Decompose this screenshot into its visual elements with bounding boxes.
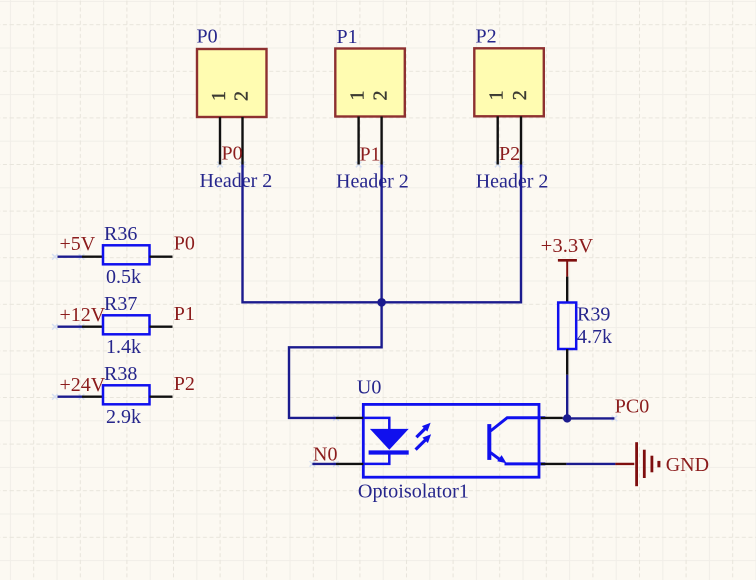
svg-text:2: 2: [230, 91, 252, 101]
power symbol +3.3V: [558, 260, 577, 276]
svg-text:P0: P0: [174, 233, 195, 255]
header P1 pin 2: [369, 91, 391, 165]
ground GND wire: [615, 463, 634, 465]
header P0 body: [197, 49, 267, 117]
svg-text:2: 2: [509, 90, 531, 100]
header P0 pin 1: [208, 91, 230, 165]
opto phototransistor base bar: [487, 424, 491, 460]
resistor R36 pin 2: [150, 256, 173, 258]
resistor R38 pin 1: [82, 396, 103, 398]
connection cross marks: [52, 162, 617, 467]
junction bus/P1: [377, 298, 386, 307]
resistor R39 pin 2: [566, 349, 568, 375]
wire emitter to GND: [566, 463, 615, 465]
opto pin 3 (emitter): [541, 463, 566, 465]
opto pin 1 (anode): [336, 417, 363, 419]
svg-text:1: 1: [486, 90, 508, 100]
svg-text:2: 2: [369, 91, 391, 101]
svg-text:+3.3V: +3.3V: [541, 235, 594, 257]
svg-text:1.4k: 1.4k: [106, 336, 141, 358]
header P0 pin 2: [230, 91, 252, 165]
svg-text:P2: P2: [476, 26, 497, 48]
svg-text:R39: R39: [577, 304, 610, 326]
svg-text:P1: P1: [337, 26, 358, 48]
svg-text:2.9k: 2.9k: [106, 406, 141, 428]
opto light arrow 2: [416, 434, 432, 449]
opto light arrow 1: [416, 423, 430, 438]
resistor R36 body: [103, 245, 150, 264]
opto LED cathode bar: [369, 450, 409, 454]
header P2 pin 1: [486, 90, 508, 164]
svg-text:P0: P0: [222, 143, 243, 165]
wire N0: [312, 463, 336, 465]
svg-text:1: 1: [346, 91, 368, 101]
opto LED anode lead: [363, 418, 389, 430]
resistor R37 pin 1: [82, 326, 103, 328]
svg-text:P2: P2: [499, 143, 520, 165]
resistor R37 pin 2: [150, 326, 173, 328]
svg-text:Header 2: Header 2: [476, 171, 549, 193]
svg-text:+5V: +5V: [60, 233, 96, 255]
svg-text:R36: R36: [104, 223, 137, 245]
svg-text:R38: R38: [104, 363, 137, 385]
svg-text:4.7k: 4.7k: [577, 326, 612, 348]
svg-text:Optoisolator1: Optoisolator1: [358, 481, 469, 503]
opto pin 4 (collector): [541, 417, 563, 419]
svg-text:P2: P2: [174, 373, 195, 395]
header P1 pin 1: [346, 91, 368, 165]
header P2 pin 2: [509, 90, 531, 164]
resistor R36 wire +5V: [58, 256, 83, 258]
svg-text:U0: U0: [357, 377, 381, 399]
opto LED cathode lead: [363, 454, 389, 464]
resistor R36 pin 1: [82, 256, 103, 258]
ground symbol: [637, 442, 659, 486]
resistor R39 body: [558, 303, 576, 350]
resistor R38 wire +24V: [58, 396, 83, 398]
opto phototransistor collector: [491, 418, 546, 431]
svg-text:+12V: +12V: [60, 304, 106, 326]
svg-text:+24V: +24V: [60, 374, 106, 396]
svg-text:0.5k: 0.5k: [106, 266, 141, 288]
resistor R37 wire +12V: [58, 326, 83, 328]
svg-text:Header 2: Header 2: [336, 171, 409, 193]
header P2 body: [474, 48, 544, 116]
wire bus P0.2 to P2.2: [243, 165, 522, 303]
wire PC0: [563, 417, 615, 419]
svg-text:R37: R37: [104, 293, 137, 315]
wire P1.2 down through junction to opto input: [289, 165, 382, 418]
resistor R38 pin 2: [150, 396, 173, 398]
svg-text:Header 2: Header 2: [200, 170, 273, 192]
resistor R38 body: [103, 385, 150, 404]
resistor R37 body: [103, 315, 150, 334]
opto pin 2 (cathode): [336, 463, 363, 465]
optoisolator U0 body: [363, 404, 539, 477]
svg-text:GND: GND: [666, 454, 709, 476]
opto phototransistor emitter: [491, 453, 546, 464]
svg-text:P0: P0: [197, 26, 218, 48]
wire R39 to PC0 node: [566, 375, 568, 419]
resistor R39 pin 1: [566, 277, 568, 303]
junction PC0: [563, 414, 571, 422]
svg-text:1: 1: [208, 91, 230, 101]
svg-text:N0: N0: [313, 444, 337, 466]
opto LED triangle: [370, 429, 409, 450]
svg-text:P1: P1: [174, 303, 195, 325]
svg-text:PC0: PC0: [615, 396, 649, 418]
svg-text:P1: P1: [360, 144, 381, 166]
header P1 body: [335, 49, 405, 117]
